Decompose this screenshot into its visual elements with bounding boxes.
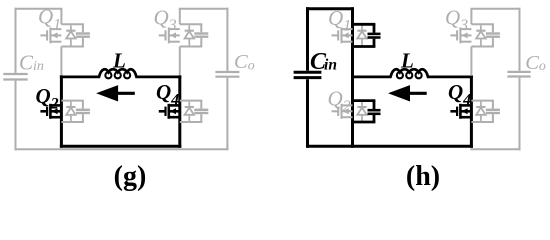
svg-text:Q1: Q1	[328, 6, 351, 35]
transistor Q3 MOSFET	[450, 28, 471, 44]
output capacitance of Q3	[471, 24, 500, 46]
inductor L (g)	[60, 69, 181, 78]
svg-text:L: L	[400, 49, 414, 73]
wire: Q1 drain link (g)	[60, 9, 62, 25]
capacitor Cin (g) plates	[3, 74, 27, 80]
output capacitance of Q3	[180, 24, 209, 46]
wire: left leg rail through Q1 and Q2 (h)	[351, 7, 354, 148]
transistor Q4 MOSFET	[159, 104, 180, 119]
wire: black loop bottom (g)	[60, 145, 181, 148]
transistor Q1 MOSFET	[332, 28, 353, 44]
transistor Q3 MOSFET	[159, 28, 180, 44]
output capacitance of Q4	[471, 101, 500, 122]
wire: input top rail (g)	[15, 8, 63, 10]
capacitor Co (g) plates	[215, 72, 239, 77]
svg-text:Co: Co	[234, 51, 255, 73]
svg-text:Co: Co	[525, 52, 546, 74]
capacitor Cin (h) plates	[294, 72, 322, 77]
wire: input left rail / Cin branch (g)	[15, 8, 17, 151]
inductor L (h)	[351, 69, 473, 78]
node B rail through Q4, black loop right (g)	[178, 75, 181, 147]
wire: top rail Cin to Q1 (h)	[306, 7, 354, 10]
output capacitance of Q4	[180, 101, 209, 122]
wire: Q3 drain link (g)	[179, 9, 181, 25]
transistor Q2 MOSFET	[40, 104, 61, 119]
wire: black loop bottom (h)	[306, 145, 473, 148]
transistor Q4 MOSFET	[450, 104, 471, 119]
wire: node B rail through Q4 (h)	[470, 75, 473, 147]
output capacitance of Q1	[61, 24, 90, 46]
output capacitance of Q2	[61, 101, 90, 122]
body diode of Q1	[66, 25, 75, 45]
svg-text:Cin: Cin	[19, 50, 44, 74]
body diode of Q4	[185, 102, 194, 121]
current direction arrow (g)	[96, 85, 135, 101]
wire: Co branch right rail (h)	[519, 8, 521, 151]
output capacitance of Q2	[353, 101, 381, 122]
wire: Q3 source to node B (h)	[470, 47, 472, 76]
wire: Q3 source to node B (g)	[179, 47, 181, 76]
body diode of Q4	[476, 102, 485, 121]
transistor Q1 MOSFET	[40, 28, 61, 44]
body diode of Q1	[357, 25, 366, 45]
wire: Co branch right rail (g)	[226, 8, 228, 151]
wire: output top rail (g)	[179, 8, 229, 10]
wire: Q1 source to node A (g)	[60, 47, 62, 76]
transistor Q2 MOSFET	[332, 104, 353, 119]
svg-text:Cin: Cin	[310, 49, 337, 75]
svg-text:Q3: Q3	[445, 6, 468, 35]
wire: bottom ground rail (g)	[15, 148, 229, 150]
body diode of Q3	[185, 25, 194, 45]
body diode of Q2	[357, 102, 366, 121]
wire: Q3 drain link (h)	[470, 9, 472, 25]
svg-text:(g): (g)	[114, 161, 147, 192]
body diode of Q2	[66, 102, 75, 121]
svg-text:Q3: Q3	[154, 6, 177, 35]
body diode of Q3	[476, 25, 485, 45]
wire: bottom ground rail gray segment (h)	[470, 148, 520, 150]
current direction arrow (h)	[388, 85, 427, 101]
capacitor Co (h) plates	[507, 72, 530, 77]
svg-text:L: L	[112, 49, 126, 73]
wire: node A rail through Q2, black loop left (g)	[60, 75, 63, 147]
output capacitance of Q1	[353, 24, 381, 46]
svg-text:(h): (h)	[406, 161, 440, 192]
wire: output top rail (h)	[470, 8, 520, 10]
capacitor Cin rail (h)	[306, 7, 309, 148]
